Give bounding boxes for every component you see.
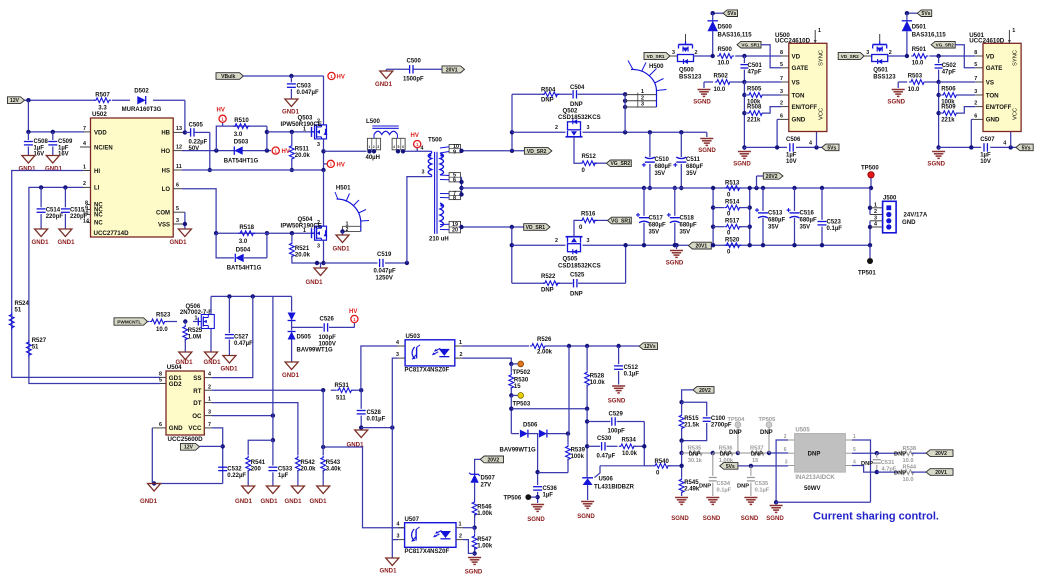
wire Q505 source to R516	[574, 220, 580, 236]
svg-text:C502: C502	[942, 63, 957, 69]
svg-text:TL431BIDBZR: TL431BIDBZR	[594, 485, 635, 491]
wire H500 pins	[624, 94, 626, 132]
svg-text:1: 1	[853, 434, 856, 440]
net label VBulk	[216, 73, 244, 80]
svg-text:3: 3	[672, 50, 675, 56]
svg-text:35V: 35V	[649, 230, 660, 236]
svg-text:SGND: SGND	[887, 99, 905, 106]
svg-text:DNP: DNP	[894, 471, 906, 477]
op-amp U502 UCC27714D gate driver	[91, 118, 174, 237]
svg-text:T500: T500	[428, 137, 443, 144]
svg-text:CSD18532KCS: CSD18532KCS	[558, 262, 601, 269]
svg-text:210 uH: 210 uH	[429, 237, 449, 243]
svg-text:3: 3	[587, 238, 590, 244]
svg-text:TP500: TP500	[861, 166, 879, 172]
node VDD junctions with C508 C509	[26, 130, 30, 134]
node D505 mid	[292, 326, 323, 328]
wire U505 pin5 output	[852, 452, 877, 454]
capacitor C511	[679, 130, 683, 134]
svg-text:MURA160T3G: MURA160T3G	[122, 107, 162, 113]
capacitor C509	[52, 132, 54, 140]
svg-text:1.0M: 1.0M	[188, 335, 201, 341]
wire HO line	[182, 150, 271, 152]
svg-text:12: 12	[176, 145, 182, 151]
svg-text:R511: R511	[295, 147, 310, 153]
svg-text:1: 1	[641, 89, 644, 95]
svg-text:GND1: GND1	[333, 246, 351, 253]
svg-text:TP504: TP504	[728, 417, 746, 423]
svg-text:R527: R527	[32, 338, 47, 344]
svg-text:20V1: 20V1	[935, 470, 947, 476]
node output rail top junctions	[648, 186, 652, 190]
svg-text:1: 1	[208, 397, 211, 403]
svg-text:16V: 16V	[58, 152, 69, 158]
resistor R525	[184, 322, 186, 325]
pin stubs U504	[160, 376, 166, 378]
net label 5Vs to U505	[720, 463, 738, 470]
ground GND1 under C503	[285, 99, 298, 107]
svg-text:20V1: 20V1	[446, 67, 458, 73]
svg-text:DNP: DNP	[541, 98, 554, 104]
capacitor C516	[792, 186, 796, 190]
svg-text:C500: C500	[407, 59, 422, 65]
diode D505 BAV99WT1G	[291, 296, 293, 311]
ladder vertical left	[712, 188, 714, 245]
svg-text:D505: D505	[297, 335, 312, 341]
ground SGND at U505	[775, 502, 777, 504]
resistor R535 DNP row	[682, 452, 687, 454]
svg-text:10.0: 10.0	[908, 87, 920, 93]
svg-text:0.47µF: 0.47µF	[234, 341, 253, 347]
svg-text:1µF: 1µF	[980, 153, 991, 159]
svg-text:C533: C533	[278, 467, 293, 473]
svg-text:BSS123: BSS123	[873, 75, 896, 81]
wire LO to low-side gate loop	[182, 189, 216, 234]
svg-text:IPW50R190CE: IPW50R190CE	[281, 121, 322, 128]
wire Q503 source to HS node	[323, 139, 325, 170]
svg-text:4: 4	[874, 222, 877, 228]
svg-text:GND1: GND1	[380, 568, 398, 575]
svg-text:HS: HS	[162, 168, 170, 174]
resistor R521	[290, 231, 294, 235]
svg-text:6: 6	[780, 113, 783, 119]
svg-text:HV: HV	[349, 309, 357, 315]
svg-text:1.00k: 1.00k	[477, 511, 493, 517]
svg-text:SGND: SGND	[741, 515, 759, 522]
transistor Q501 BSS123	[864, 55, 872, 57]
svg-text:U506: U506	[599, 477, 614, 483]
svg-text:35V: 35V	[768, 225, 779, 231]
svg-text:1µF: 1µF	[786, 153, 797, 159]
svg-text:R517: R517	[725, 219, 740, 225]
svg-text:27V: 27V	[481, 483, 492, 489]
svg-text:DNP: DNP	[737, 483, 749, 489]
resistor R501	[911, 54, 928, 59]
svg-text:6: 6	[974, 113, 977, 119]
svg-text:R500: R500	[718, 47, 733, 53]
svg-text:GND1: GND1	[19, 166, 37, 173]
svg-text:R522: R522	[541, 274, 556, 280]
net label 5Vs at U500 VCC	[822, 144, 839, 151]
pin box T500 sec 9 10	[449, 145, 460, 153]
svg-text:3.0: 3.0	[234, 131, 243, 138]
svg-text:HI: HI	[94, 169, 100, 175]
svg-text:1: 1	[195, 316, 198, 322]
op-amp U500 UCC24610D	[789, 43, 827, 131]
pin box T500 sec 5 6	[449, 173, 460, 182]
wire HS rail	[182, 169, 324, 171]
svg-text:35V: 35V	[800, 225, 811, 231]
wire TP503 to comp line	[510, 395, 512, 433]
svg-text:C515: C515	[70, 208, 85, 214]
svg-text:C516: C516	[800, 211, 815, 217]
svg-text:C534: C534	[717, 481, 731, 487]
wire Q500 to VD pin	[693, 55, 713, 57]
svg-text:5Vs: 5Vs	[726, 464, 735, 470]
test point TP506	[531, 496, 538, 498]
svg-text:R524: R524	[15, 301, 30, 307]
svg-text:U507: U507	[405, 516, 420, 523]
svg-text:6: 6	[402, 145, 404, 149]
wire U507 pin2 to SGND	[463, 540, 475, 554]
ground SGND under U507	[468, 557, 481, 559]
wire T500 primary pin3	[407, 177, 429, 263]
svg-text:R509: R509	[941, 105, 956, 111]
svg-text:SGND: SGND	[927, 161, 945, 168]
pin stubs U502	[83, 170, 91, 172]
svg-text:TP501: TP501	[858, 271, 876, 277]
transistor Q502 CSD18532KCS	[568, 122, 581, 130]
capacitor C519	[324, 262, 378, 264]
svg-text:10.0k: 10.0k	[622, 451, 638, 457]
svg-text:R530: R530	[514, 377, 529, 383]
resistor R511	[290, 130, 294, 134]
wire U507 pin3 to GND1	[392, 540, 398, 558]
svg-text:0.01µF: 0.01µF	[367, 417, 386, 423]
svg-text:2: 2	[555, 125, 558, 131]
node REF junction	[595, 466, 601, 478]
node R536 junction	[711, 451, 715, 455]
svg-text:2: 2	[974, 101, 977, 107]
wire Q501 to VD pin	[887, 55, 907, 57]
node 12V junction	[26, 98, 30, 102]
pin SYNC stub U500	[814, 30, 816, 43]
svg-text:12V: 12V	[184, 445, 194, 451]
wire C528 junction to opto emitter	[361, 427, 392, 429]
diode D502	[137, 96, 145, 104]
ground GND1 under Q506	[205, 352, 218, 360]
svg-text:20V2: 20V2	[935, 451, 947, 457]
svg-text:1: 1	[459, 522, 462, 528]
wire VG_SR1 to GATE pin	[761, 45, 781, 68]
svg-text:R513: R513	[725, 181, 740, 187]
wire comp vertical to TL431	[586, 409, 588, 477]
wire snubber R504 C504 row	[512, 93, 544, 95]
resistor R540	[653, 463, 670, 468]
svg-text:R528: R528	[590, 373, 605, 379]
wire output bottom rail	[644, 244, 688, 246]
ground SGND under C535	[744, 497, 757, 499]
wire VCC return line U500	[742, 145, 746, 149]
svg-text:HV: HV	[337, 163, 345, 169]
svg-text:0.22µF: 0.22µF	[227, 473, 246, 479]
wire output bottom rail right	[711, 244, 870, 246]
svg-text:2: 2	[346, 227, 349, 233]
svg-text:BAT54HT1G: BAT54HT1G	[224, 159, 259, 165]
net label 5Vs at U501 VCC	[1016, 144, 1033, 151]
svg-text:4: 4	[396, 340, 399, 346]
svg-text:GND1: GND1	[170, 239, 188, 246]
svg-text:7: 7	[780, 76, 783, 82]
svg-text:GND1: GND1	[310, 498, 328, 505]
wire C529 R534 to REF line	[643, 422, 645, 466]
svg-text:10.0: 10.0	[156, 327, 168, 333]
svg-text:C510: C510	[655, 157, 670, 163]
svg-text:6: 6	[159, 422, 162, 428]
svg-text:TON: TON	[792, 92, 805, 99]
svg-text:TP506: TP506	[504, 496, 522, 502]
svg-text:U505: U505	[795, 428, 810, 434]
wire U503 LED anode R526 line	[462, 345, 529, 347]
svg-text:D500: D500	[718, 25, 733, 31]
svg-text:NC/EN: NC/EN	[94, 145, 113, 151]
resistor R518	[238, 231, 255, 236]
svg-text:GND: GND	[986, 117, 1000, 124]
svg-text:R515: R515	[684, 416, 699, 422]
net label VD_SR2	[838, 52, 864, 59]
net label VG_SR1 at R516	[608, 217, 632, 224]
svg-text:D503: D503	[234, 139, 249, 146]
svg-text:SGND: SGND	[577, 513, 595, 520]
svg-text:C504: C504	[570, 85, 585, 91]
svg-text:GND1: GND1	[45, 166, 63, 173]
svg-text:C507: C507	[980, 137, 995, 143]
svg-text:680µF: 680µF	[800, 218, 817, 224]
wire VD_SR2 vertical to snubber and gate	[511, 94, 513, 151]
svg-text:SGND: SGND	[693, 99, 711, 106]
capacitor C531 DNP	[876, 453, 878, 458]
svg-text:3: 3	[317, 244, 320, 250]
svg-text:C503: C503	[297, 84, 312, 90]
net label 12V	[8, 97, 25, 104]
svg-text:GND1: GND1	[375, 81, 393, 88]
svg-text:0.047µF: 0.047µF	[374, 269, 396, 275]
resistor R534	[619, 444, 636, 449]
svg-text:R502: R502	[714, 74, 729, 80]
svg-text:VCC: VCC	[188, 425, 202, 432]
wire VD_SR1 net	[461, 226, 524, 228]
svg-text:R525: R525	[188, 328, 203, 334]
svg-text:3: 3	[208, 410, 211, 416]
svg-text:220pF: 220pF	[46, 214, 64, 220]
ground GND1 under C509	[46, 156, 59, 164]
svg-text:35V: 35V	[655, 171, 666, 177]
svg-text:1: 1	[303, 228, 306, 234]
ground SGND under R545	[675, 497, 688, 499]
svg-text:R505: R505	[747, 87, 762, 93]
capacitor C505 bootstrap	[183, 130, 187, 134]
svg-text:5: 5	[398, 145, 400, 149]
resistor R502	[704, 81, 713, 83]
svg-text:680µF: 680µF	[680, 223, 697, 229]
svg-text:SGND: SGND	[733, 161, 751, 168]
svg-text:2.00k: 2.00k	[537, 350, 553, 356]
svg-text:TP503: TP503	[513, 402, 531, 408]
transistor Q504 IPW50R190CE	[323, 170, 325, 226]
svg-text:U503: U503	[406, 333, 421, 340]
svg-text:6: 6	[453, 178, 456, 184]
ground GND1 under R525	[179, 352, 192, 360]
resistor R531	[336, 388, 353, 393]
svg-text:VG_SR2: VG_SR2	[610, 161, 630, 167]
wire 12V to VDD	[27, 100, 29, 132]
pin stubs NC	[87, 204, 91, 206]
svg-text:1250V: 1250V	[376, 275, 393, 281]
svg-text:8: 8	[159, 371, 162, 377]
wire Q502 gate	[512, 131, 566, 133]
svg-text:DNP: DNP	[894, 452, 906, 458]
transistor U506 TL431BIDBZR	[582, 477, 593, 479]
diode D501 BAS316,115	[905, 11, 909, 15]
svg-text:C529: C529	[609, 412, 624, 418]
capacitor C533	[272, 440, 274, 465]
net label VD_SR1	[524, 224, 550, 231]
opto U507 PC817X4NSZ0F	[405, 523, 456, 548]
diode D503 BAT54HT1G	[234, 146, 242, 154]
symbol HV at transformer input	[416, 148, 418, 152]
svg-text:PC817X4NSZ0F: PC817X4NSZ0F	[405, 368, 450, 374]
resistor R538 DNP	[899, 451, 916, 456]
wire OC to R541	[248, 440, 273, 455]
svg-text:1: 1	[874, 202, 877, 208]
svg-text:5Vs: 5Vs	[727, 11, 736, 17]
svg-text:GND1: GND1	[306, 279, 324, 286]
svg-text:VBulk: VBulk	[221, 74, 235, 80]
wire RT ladder vertical	[322, 390, 324, 447]
svg-text:D506: D506	[523, 422, 538, 428]
svg-text:2: 2	[889, 50, 892, 56]
node gate Q503 junction	[265, 130, 269, 134]
wire GND pin U501	[973, 118, 983, 120]
svg-text:7: 7	[208, 422, 211, 428]
ladder vertical right	[749, 188, 751, 245]
svg-text:R526: R526	[537, 337, 552, 343]
capacitor C518	[674, 188, 676, 216]
svg-text:1: 1	[303, 127, 306, 133]
svg-text:R546: R546	[477, 505, 492, 511]
svg-text:GND1: GND1	[140, 498, 158, 505]
svg-text:BAS316,115: BAS316,115	[912, 33, 947, 39]
svg-text:13: 13	[176, 126, 182, 132]
resistor R542	[296, 456, 301, 473]
svg-text:6: 6	[176, 183, 179, 189]
svg-text:VDD: VDD	[94, 130, 107, 136]
wire gate Q503	[267, 131, 315, 133]
wire R518 line	[216, 232, 314, 234]
svg-text:DNP: DNP	[751, 451, 763, 457]
svg-text:VD: VD	[792, 53, 801, 60]
net label VG_SR2 at R512	[606, 160, 631, 167]
svg-text:2700pF: 2700pF	[711, 422, 732, 428]
svg-text:2: 2	[784, 434, 787, 440]
svg-text:VD_SR2: VD_SR2	[841, 54, 859, 59]
ground GND1 under R543	[317, 486, 330, 494]
capacitor C513	[761, 186, 765, 190]
svg-text:1µF: 1µF	[543, 493, 554, 499]
svg-text:1: 1	[83, 164, 86, 170]
svg-text:21.5k: 21.5k	[684, 422, 700, 428]
svg-text:SGND: SGND	[666, 260, 684, 267]
wire Q502 source to R512	[574, 137, 580, 163]
resistor R543	[322, 447, 324, 455]
capacitor C504 DNP	[572, 90, 574, 98]
ground SGND at R502	[703, 82, 705, 88]
diode D507 zener 27V	[470, 474, 478, 482]
svg-text:DNP: DNP	[689, 451, 701, 457]
resistor R541	[246, 456, 251, 473]
resistor R505	[742, 93, 746, 97]
capacitor C525 DNP	[573, 279, 575, 287]
node HS junctions	[321, 149, 325, 153]
resistor R526	[530, 344, 547, 349]
node R537 junction	[736, 451, 740, 455]
svg-text:VCC: VCC	[819, 108, 825, 120]
ground GND1 under C533	[266, 486, 279, 494]
svg-text:SGND: SGND	[527, 516, 545, 523]
resistor R507	[94, 98, 111, 103]
svg-text:R539: R539	[571, 447, 586, 453]
svg-text:20.0k: 20.0k	[295, 153, 311, 159]
svg-text:R506: R506	[941, 87, 956, 93]
svg-text:R523: R523	[156, 313, 171, 319]
svg-text:HO: HO	[161, 149, 170, 155]
svg-text:10.0: 10.0	[903, 458, 914, 464]
svg-text:12V: 12V	[10, 98, 20, 104]
svg-text:NC: NC	[94, 213, 103, 219]
svg-text:2: 2	[83, 181, 86, 187]
resistor R544 DNP	[899, 470, 916, 475]
resistor R516	[580, 218, 597, 223]
svg-text:GND1: GND1	[285, 498, 303, 505]
svg-text:3: 3	[317, 142, 320, 148]
ground GND1 under R541	[242, 486, 255, 494]
svg-text:3.0: 3.0	[239, 238, 248, 245]
svg-text:VS: VS	[986, 79, 994, 86]
svg-text:C512: C512	[624, 365, 639, 371]
resistor R512	[580, 161, 597, 166]
capacitor C534 DNP	[712, 453, 714, 476]
net label 5Vs at D500	[713, 12, 723, 14]
svg-text:3: 3	[974, 89, 977, 95]
svg-text:10V: 10V	[980, 159, 991, 165]
svg-text:50WV: 50WV	[804, 485, 822, 492]
svg-text:SYNC: SYNC	[819, 50, 825, 66]
svg-text:R545: R545	[684, 480, 699, 486]
capacitor C529	[587, 421, 610, 423]
svg-text:C511: C511	[686, 157, 701, 163]
svg-text:LI: LI	[94, 186, 100, 192]
pin stubs U507	[398, 527, 405, 529]
svg-text:R534: R534	[622, 437, 637, 443]
svg-text:7: 7	[83, 126, 86, 132]
ground GND1 under C527	[223, 356, 236, 364]
wire center tap to output rail	[461, 176, 462, 178]
svg-text:GND1: GND1	[204, 359, 222, 366]
pin box T500 sec 7 8	[449, 191, 460, 199]
svg-text:Current sharing control.: Current sharing control.	[813, 511, 939, 523]
svg-text:C506: C506	[786, 137, 801, 143]
svg-text:LO: LO	[162, 187, 171, 193]
